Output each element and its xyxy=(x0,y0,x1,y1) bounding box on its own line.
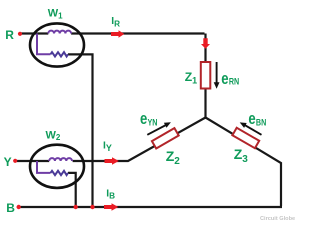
svg-text:Y: Y xyxy=(4,155,12,169)
svg-text:B: B xyxy=(6,201,15,215)
svg-text:Circuit Globe: Circuit Globe xyxy=(260,216,295,222)
svg-text:IY: IY xyxy=(103,140,112,153)
svg-text:R: R xyxy=(5,28,14,42)
